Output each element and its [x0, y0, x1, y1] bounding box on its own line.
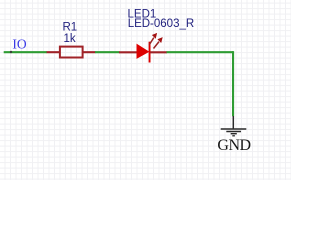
resistor R1 body: [60, 47, 83, 58]
LED1 anode lead: [119, 51, 137, 53]
resistor R1 pin 1 lead: [47, 51, 60, 53]
svg-text:1k: 1k: [64, 33, 76, 45]
svg-text:IO: IO: [12, 37, 26, 52]
svg-text:GND: GND: [217, 137, 250, 154]
LED1 emission arrow 1: [149, 33, 157, 45]
LED1 emission arrow 2: [154, 37, 163, 48]
svg-text:R1: R1: [63, 21, 78, 33]
wire (R1 to LED1): [95, 51, 120, 53]
wire (vertical down to GND): [232, 51, 234, 116]
ground bar 1: [221, 128, 247, 130]
ground symbol GND stem: [232, 116, 234, 129]
wire (LED1 to GND corner): [167, 51, 234, 53]
ground bar 3: [231, 133, 237, 135]
ground bar 4: [232, 135, 235, 137]
LED1 cathode bar: [149, 42, 151, 63]
wire (net IO to R1): [4, 51, 47, 53]
node IO connection dot: [10, 51, 12, 53]
LED1 triangle (anode): [137, 44, 150, 59]
resistor R1 pin 2 lead: [83, 51, 96, 53]
LED1 cathode lead: [150, 51, 167, 53]
ground bar 2: [226, 131, 241, 133]
svg-text:LED-0603_R: LED-0603_R: [128, 18, 194, 30]
